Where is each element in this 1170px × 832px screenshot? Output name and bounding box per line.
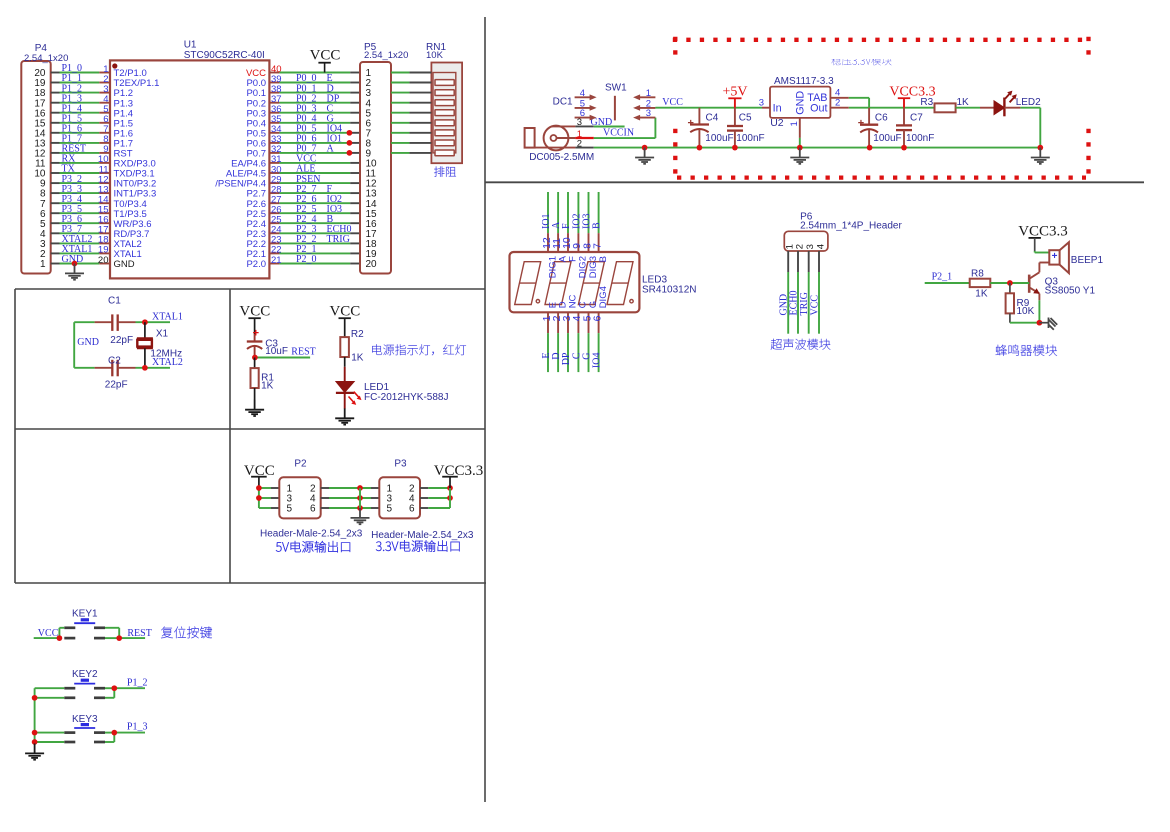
dotted red frame: bottom edge [677,175,1086,179]
LED1 diode FC-2012HYK-588J [336,382,449,405]
RN1 resistor element 6 [435,130,454,136]
VCC3.3 power symbol [889,85,935,108]
svg-text:C5: C5 [739,113,752,124]
U1 pin 27 P2.6, wire to P5 pin 14 [246,194,360,210]
svg-text:10K: 10K [1017,306,1035,317]
SW1 pin 3 arrow [633,108,655,120]
4-digit 7-segment display LED3 SR410312N [510,252,697,312]
U1 pin 16 WR/P3.6, wire net P3_6 from P4 pin 5 [51,214,152,230]
wire REST net [252,347,316,361]
svg-text:10K: 10K [426,50,444,61]
svg-text:ECH0: ECH0 [789,291,800,316]
svg-text:X1: X1 [156,329,169,340]
svg-text:2.54mm_1*4P_Header: 2.54mm_1*4P_Header [800,221,902,232]
module title 稳压3.3V模块 (clipped by frame) [831,56,891,66]
RN1 resistor element 1 [435,80,454,86]
wires P3 pins 2,4,6 to VCC3.3 [420,485,453,508]
LED3 digit 3 outline [578,262,604,305]
svg-text:AMS1117-3.3: AMS1117-3.3 [774,76,834,87]
LED2 diode [994,91,1041,117]
dotted red frame of 3.3V regulator module: top edge [673,38,1086,42]
DC1 pin 2 wire to ground rail [535,138,594,149]
VCC3.3 power symbol above buzzer [1018,223,1068,251]
svg-text:C4: C4 [706,113,719,124]
U1 pin 36 P0.3, wire to P5 pin 5 [246,103,360,119]
SW1 pin 4 arrow [575,88,597,100]
U1 pin 4 P1.3, wire net P1_3 from P4 pin 17 [51,93,133,109]
slashed ground symbol right of Q3 emitter [1039,318,1057,330]
svg-text:P2_0: P2_0 [296,254,317,265]
section divider: left block inner vertical [229,289,231,583]
svg-text:DC1: DC1 [553,97,573,108]
header P2 Header-Male-2.54_2x3 [260,459,363,553]
VCC power symbol above R2 [329,304,360,338]
svg-text:IO4: IO4 [592,353,603,369]
svg-text:STC90C52RC-40I: STC90C52RC-40I [184,50,265,61]
switch SW1 [605,83,627,121]
resistor R8 1K [970,269,991,300]
LED3 bottom pin 4 (C) wire net C [571,301,589,372]
LED3 digit 4 outline [607,262,633,305]
SW1 pin 2 arrow [633,98,655,110]
svg-text:VCC: VCC [329,304,360,320]
svg-text:2: 2 [835,98,840,109]
DC jack DC1 DC005-2.5MM [525,97,595,164]
LED3 top pin 10 (F) wire net F [561,192,579,262]
wire R8 to Q3 base [990,280,1029,286]
svg-text:2: 2 [577,138,582,149]
push button KEY3 [64,714,105,742]
U1 pin 13 INT1/P3.3, wire net P3_3 from P4 pin 8 [51,184,157,200]
U1 pin 22 P2.1, wire to P5 pin 19 [246,244,360,260]
svg-text:P1_2: P1_2 [127,677,148,688]
svg-text:P2: P2 [294,459,307,470]
RN1 resistor element 7 [435,140,454,146]
push button KEY1 [64,608,105,638]
svg-text:+: + [858,118,864,130]
wire P5 pin 5 to RN1 pin 5 [391,112,431,114]
LED3 top pin 8 (DIG3) wire net IO3 [581,192,599,278]
LED3 bottom pin 6 (DIG4) wire net IO4 [591,286,609,372]
svg-text:B: B [598,256,609,262]
svg-text:XTAL1: XTAL1 [152,312,183,323]
svg-text:3: 3 [646,108,651,119]
svg-text:TRIG: TRIG [327,234,350,245]
annotation 超声波模块 [771,339,831,350]
svg-text:DC005-2.5MM: DC005-2.5MM [529,152,594,163]
+5V power symbol [722,85,747,108]
wire P5 pin 4 to RN1 pin 4 [391,102,431,104]
DC1 pin 3 wire (GND net) [552,117,625,128]
svg-text:5: 5 [287,504,293,515]
svg-text:20: 20 [98,255,109,266]
capacitor C1 22pF [95,295,136,346]
U1 pin 5 P1.4, wire net P1_4 from P4 pin 16 [51,103,133,119]
LED3 top pin 12 (DIG1) wire net IO1 [541,192,559,278]
U1 pin 23 P2.2, wire to P5 pin 18 [246,234,360,250]
wire VCC3.3 to BEEP1 [1035,251,1050,253]
svg-text:Header-Male-2.54_2x3: Header-Male-2.54_2x3 [260,529,363,540]
ground rail wire (GND net) [594,147,1041,149]
svg-text:GND: GND [77,337,99,348]
wire LED2 cathode to ground rail [1004,108,1049,164]
svg-text:+: + [687,117,693,129]
svg-text:In: In [773,102,782,114]
svg-text:C7: C7 [910,113,923,124]
ground below key bus [25,744,44,760]
wires VCC to P2 pins 1,3,5 [256,485,279,508]
wire VCC net: SW1 pin2 to U2 In [655,97,762,108]
VCC power symbol above C3 [239,304,270,335]
svg-text:A: A [327,144,335,155]
wire P5 pin 7 to RN1 pin 7 [391,132,431,134]
section divider: left block left border [14,289,16,583]
annotation 电源指示灯，红灯 [372,344,466,355]
svg-text:GND: GND [114,259,135,270]
svg-text:1: 1 [789,121,800,126]
svg-text:C2: C2 [108,355,121,366]
svg-text:+: + [1052,251,1058,262]
svg-text:F: F [561,223,572,229]
annotation 蜂鸣器模块 [996,345,1058,356]
svg-text:5: 5 [387,504,393,515]
svg-text:100uF: 100uF [705,133,733,144]
U1 pin 19 XTAL1, wire net XTAL1 from P4 pin 2 [51,244,142,260]
svg-text:2: 2 [795,244,806,249]
LED3 top pin 7 (B) wire net B [591,192,609,262]
MCU U1 STC90C52RC-40I [110,40,269,279]
U1 pin 20 GND, wire net GND from P4 pin 1 [51,254,135,270]
LED3 bottom pin 5 (G) wire net G [581,301,599,372]
svg-text:Out: Out [810,102,827,114]
svg-text:DIG4: DIG4 [598,286,609,308]
U1 pin 33 P0.6, wire to P5 pin 8 [246,134,360,150]
U1 pin 32 P0.7, wire to P5 pin 9 [246,144,360,160]
LED3 bottom pin 2 (D) wire net D [551,301,569,372]
svg-text:6: 6 [591,315,603,321]
capacitor C2 22pF [95,355,136,390]
svg-text:SW1: SW1 [605,83,627,94]
U1 pin 17 RD/P3.7, wire net P3_7 from P4 pin 4 [51,224,150,240]
svg-text:U2: U2 [770,117,784,129]
svg-text:FC-2012HYK-588J: FC-2012HYK-588J [364,392,448,403]
wire Q3 emitter to ground [1010,294,1042,326]
section divider: left block lower border [15,582,486,584]
U1 pin 21 P2.0, wire to P5 pin 20 [246,254,360,270]
LED3 digit 2 outline [545,262,571,305]
svg-text:P1_3: P1_3 [127,722,148,733]
junction dots on nets IO4 / IO1 / A at P5 pins 7,8,9 [347,130,353,136]
VCC3.3 power symbol right of P3 [434,463,484,488]
wires P2 pins 2,4,6 to P3 pins 1,3,5 (GND bus) [321,485,380,511]
svg-text:C6: C6 [875,113,888,124]
U1 pin 11 TXD/P3.1, wire net TX from P4 pin 10 [51,164,155,180]
wire XTAL2 net [136,357,183,371]
U1 pin 15 T1/P3.5, wire net P3_5 from P4 pin 6 [51,204,147,220]
U1 pin 28 P2.7, wire to P5 pin 13 [246,184,360,200]
svg-text:GND: GND [795,91,807,115]
junction + ground symbol near DC1 [635,145,654,164]
P6 pin 3 wire net TRIG [799,244,816,334]
P6 pin 1 wire net GND [779,244,796,334]
RN1 label 排阻 [434,166,456,176]
U1 pin 39 P0.0, wire to P5 pin 2 [246,73,360,89]
svg-text:4: 4 [816,244,827,249]
section divider: left block middle border [15,428,485,430]
ground symbol below P2/P3 middle bus [351,508,370,524]
RN1 resistor element 2 [435,90,454,96]
capacitor C3 10uF (electrolytic) [247,328,288,358]
header P3 Header-Male-2.54_2x3 [371,459,474,552]
U1 pin 3 P1.2, wire net P1_2 from P4 pin 18 [51,83,133,99]
RN1 resistor element 8 [435,150,454,156]
svg-text:7: 7 [591,243,603,249]
U1 pin 9 RST, wire net REST from P4 pin 12 [51,144,133,160]
svg-text:R8: R8 [971,269,984,280]
U1 pin 30 ALE/P4.5, wire to P5 pin 11 [226,164,360,180]
U1 pin 1 T2/P1.0, wire net P1_0 from P4 pin 20 [51,63,147,79]
svg-text:F: F [567,256,578,262]
U2 pin 4 TAB stub + wire [830,88,869,108]
resistor network RN1 10K (排阻) [426,42,462,163]
svg-text:VCC3.3: VCC3.3 [434,463,484,479]
svg-text:3: 3 [759,97,764,108]
svg-text:VCCIN: VCCIN [603,128,634,139]
svg-text:6: 6 [409,504,415,515]
LED3 bottom pin 3 (NC) wire net DP [561,294,579,372]
svg-text:1: 1 [40,259,46,270]
RN1 resistor element 4 [435,110,454,116]
svg-text:C1: C1 [108,295,121,306]
wire P5 pin 3 to RN1 pin 3 [391,92,431,94]
svg-text:100uF: 100uF [873,133,901,144]
svg-text:22pF: 22pF [110,335,133,346]
svg-text:VCC: VCC [38,628,59,639]
capacitor C6 100uF (electrolytic) [858,108,902,151]
wire XTAL1 net [136,312,183,325]
wire GND loop left of crystal [74,322,99,368]
wire ground bus to KEY3 [32,730,65,745]
LED3 decimal point (left) [536,300,539,303]
svg-text:P2.0: P2.0 [246,259,266,270]
P6 pin 4 wire net VCC [810,244,827,334]
svg-text:KEY1: KEY1 [72,608,98,619]
svg-text:B: B [592,222,603,229]
wire BEEP1 to Q3 collector [1039,263,1049,273]
svg-text:1K: 1K [975,288,988,299]
svg-text:REST: REST [291,347,315,358]
VCC power symbol left of P2 [244,463,275,488]
U1 pin 12 INT0/P3.2, wire net P3_2 from P4 pin 9 [51,174,157,190]
svg-text:21: 21 [271,255,282,266]
svg-text:P2_1: P2_1 [932,272,953,283]
svg-text:22pF: 22pF [105,380,128,391]
wire P5 pin 9 to RN1 pin 9 [391,152,431,154]
LED3 digit 1 outline [515,262,541,305]
svg-text:1K: 1K [261,380,274,391]
ground below LED1 [335,408,354,424]
svg-text:+5V: +5V [722,85,747,100]
U1 pin 7 P1.6, wire net P1_6 from P4 pin 14 [51,124,133,140]
U1 pin 38 P0.1, wire to P5 pin 3 [246,83,360,99]
RN1 resistor element 5 [435,120,454,126]
P6 pin 2 wire net ECH0 [789,244,806,334]
svg-text:BEEP1: BEEP1 [1071,255,1104,266]
svg-text:NC: NC [567,294,578,308]
svg-text:VCC: VCC [810,295,821,316]
capacitor C7 100nF [896,108,934,151]
header P5 2.54_1x20 [360,42,408,273]
svg-text:LED2: LED2 [1016,97,1041,108]
svg-text:DP: DP [561,352,572,365]
capacitor C4 100uF (electrolytic) [687,108,733,151]
U1 pin 2 T2EX/P1.1, wire net P1_1 from P4 pin 19 [51,73,160,89]
svg-text:6: 6 [580,108,585,119]
regulator U2 AMS1117-3.3 [770,76,834,129]
wire P1_2 from KEY2 [105,677,147,698]
svg-text:KEY2: KEY2 [72,669,98,680]
wire P2_1 net to R8 [925,272,970,283]
U1 pin 34 P0.5, wire to P5 pin 7 [246,124,360,140]
U1 pin 6 P1.5, wire net P1_5 from P4 pin 15 [51,114,133,130]
SW1 pin 6 arrow [575,108,597,120]
wire REST from KEY1 [105,628,152,641]
ground below R1 [245,400,264,416]
U2 pin 1 GND lead + junction + ground [789,118,809,164]
svg-text:XTAL2: XTAL2 [152,357,183,368]
svg-text:10uF: 10uF [265,346,288,357]
U1 pin 18 XTAL2, wire net XTAL2 from P4 pin 3 [51,234,142,250]
svg-text:Header-Male-2.54_2x3: Header-Male-2.54_2x3 [371,530,474,541]
SW1 pin 5 arrow [575,98,597,110]
header P6 2.54mm_1*4P_Header [784,212,902,252]
U1 pin 26 P2.5, wire to P5 pin 15 [246,204,360,220]
svg-text:R2: R2 [351,329,364,340]
LED3 top pin 11 (A) wire net A [551,192,569,262]
svg-text:20: 20 [366,259,378,270]
push button KEY2 [64,669,105,698]
U1 pin 24 P2.3, wire to P5 pin 17 [246,224,360,240]
LED3 top pin 9 (DIG2) wire net IO2 [571,192,589,278]
svg-text:+: + [253,328,259,340]
wire P1_3 from KEY3 [105,722,147,742]
svg-text:1K: 1K [351,352,364,363]
svg-text:2.54_1x20: 2.54_1x20 [364,50,408,61]
wire P5 pin 6 to RN1 pin 6 [391,122,431,124]
dotted red frame: right edge (two runs) [1086,37,1090,57]
SW1 pin 1 arrow [633,88,655,100]
section divider: right block horizontal line [485,181,1144,183]
LED3 decimal point (right) [630,300,633,303]
svg-text:R3: R3 [920,97,933,108]
svg-text:100nF: 100nF [736,133,764,144]
section divider: vertical center line [484,17,486,802]
svg-text:4: 4 [580,88,585,99]
svg-text:1K: 1K [957,97,970,108]
wire P5 pin 1 to RN1 pin 1 [391,72,431,74]
dotted red frame: left edge (two runs) [673,37,677,57]
capacitor C5 100nF [727,108,765,151]
U1 pin 31 EA/P4.6, wire to P5 pin 10 [231,154,360,170]
svg-text:VCC: VCC [239,304,270,320]
U1 pin 10 RXD/P3.0, wire net RX from P4 pin 11 [51,154,156,170]
svg-text:6: 6 [310,504,316,515]
resistor R1 1K [251,358,275,401]
resistor R9 10K [1006,283,1035,323]
U1 pin 14 T0/P3.4, wire net P3_4 from P4 pin 7 [51,194,147,210]
wire P5 pin 2 to RN1 pin 2 [391,82,431,84]
svg-text:P3: P3 [394,459,407,470]
U1 pin 25 P2.4, wire to P5 pin 16 [246,214,360,230]
U1 pin 35 P0.4, wire to P5 pin 6 [246,114,360,130]
LED3 bottom pin 1 (E) wire net E [541,302,559,372]
transistor Q3 SS8050 Y1 [1029,272,1095,296]
U1 pin 8 P1.7, wire net P1_7 from P4 pin 13 [51,134,133,150]
U1 pin 40 VCC, wire to P5 pin 1 [246,64,360,79]
svg-text:100nF: 100nF [906,133,934,144]
DC1 pin 1 wire (VCCIN net) [557,118,656,140]
svg-text:SS8050 Y1: SS8050 Y1 [1045,286,1096,297]
header P4 2.54_1x20 [21,43,68,273]
svg-text:1: 1 [646,88,651,99]
crystal X1 12MHz [137,322,182,368]
U2 pin 2 Out stub + wire (VCC3.3 net) [830,98,934,109]
svg-text:VCC: VCC [310,48,341,64]
resistor R3 1K [920,97,993,112]
buzzer BEEP1 [1049,242,1103,273]
wire P5 pin 8 to RN1 pin 8 [391,142,431,144]
wire LED1 cathode to ground [344,393,346,409]
svg-text:VCC: VCC [662,97,683,108]
wire ground bus to KEY2 [32,688,65,742]
junction + ground at P4 pin 1 (GND net) [65,261,84,280]
resistor R2 1K [340,329,364,381]
section divider: left block top border [15,288,485,290]
U1 pin 29 /PSEN/P4.4, wire to P5 pin 12 [215,174,360,190]
U1 pin 37 P0.2, wire to P5 pin 4 [246,93,360,109]
U2 pin 3 In stub [759,97,770,108]
wire VCC to KEY1 [34,628,65,641]
svg-text:SR410312N: SR410312N [642,285,696,296]
annotation 复位按键 [161,626,212,638]
svg-text:VCC3.3: VCC3.3 [1018,223,1068,239]
VCC power symbol above P5 pin 1 [310,48,341,73]
svg-text:REST: REST [127,628,151,639]
RN1 resistor element 3 [435,100,454,106]
